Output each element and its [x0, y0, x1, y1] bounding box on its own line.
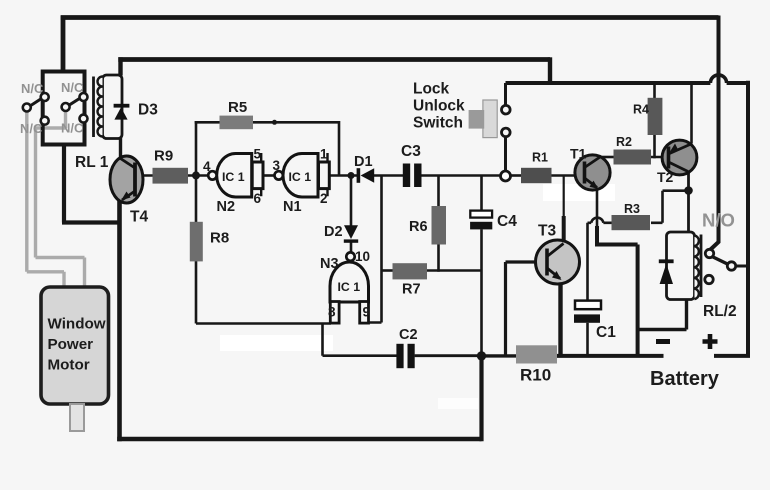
- wire bottom rail riser to ground dot: [479, 356, 483, 441]
- battery plus sign: [703, 334, 718, 349]
- wire R10 right to battery minus terminal: [557, 354, 664, 358]
- svg-text:N/C: N/C: [21, 81, 44, 96]
- svg-text:D3: D3: [138, 102, 158, 119]
- wire D1 to C3: [374, 174, 403, 177]
- contact fixed circle bottom-left: [41, 117, 49, 125]
- wire lock switch top contact riser: [504, 83, 507, 106]
- battery minus sign: [656, 339, 670, 344]
- wire T4 base to R9: [135, 174, 153, 177]
- relay RL2 core bar: [700, 235, 703, 298]
- svg-text:C4: C4: [497, 213, 517, 230]
- wire hop over vertical at x=718: [710, 75, 726, 83]
- wire T1 emitter line down: [596, 188, 599, 228]
- relay RL1 coil body: [103, 75, 123, 139]
- contact fixed circle bottom-right: [80, 115, 88, 123]
- diode RL2 flyback: [659, 259, 674, 263]
- contact throw circle left: [23, 104, 31, 112]
- relay RL2 coil body: [667, 232, 695, 300]
- wire right vertical battery plus riser: [746, 81, 750, 356]
- relay RL1 core bar: [92, 77, 95, 138]
- svg-text:N2: N2: [217, 199, 236, 215]
- resistor R1: [521, 168, 552, 183]
- capacitor C4: [470, 211, 492, 218]
- svg-text:4: 4: [203, 159, 211, 174]
- wire N/O lever to right riser: [734, 265, 748, 268]
- wire drop from second rail to switch rail: [548, 57, 552, 83]
- svg-text:N1: N1: [283, 199, 302, 215]
- wire N1 output bubble to N2 inputs: [263, 174, 275, 177]
- svg-text:2: 2: [320, 191, 328, 206]
- resistor R6: [432, 206, 447, 245]
- wire RL1 coil top riser: [118, 57, 122, 75]
- resistor R9: [153, 168, 189, 184]
- nand gate N3: [330, 262, 369, 302]
- wire bottom return rail: [117, 437, 481, 442]
- wire C1 bottom lead to rail: [586, 323, 589, 356]
- wire T2 emitter riser to switch rail: [690, 83, 693, 144]
- contact throw circle mid: [62, 103, 70, 111]
- wire T2 collector down to RL2 coil: [687, 172, 690, 233]
- resistor R5: [220, 116, 254, 130]
- svg-text:IC 1: IC 1: [222, 170, 245, 184]
- wire R2 to T2 base: [651, 156, 669, 159]
- svg-text:Window: Window: [48, 316, 106, 333]
- resistor R3: [612, 215, 651, 230]
- svg-text:Unlock: Unlock: [413, 98, 465, 115]
- svg-text:T2: T2: [657, 169, 674, 185]
- resistor R8: [190, 222, 203, 262]
- contact lever top-left: [30, 99, 42, 107]
- node ground junction dot: [477, 351, 486, 360]
- svg-text:C3: C3: [401, 143, 421, 160]
- resistor R7: [393, 263, 428, 279]
- wire R3 left lead with hop to C1 top: [588, 223, 614, 301]
- wire motor gray lead B: [36, 109, 85, 288]
- wire RL1 coil bottom to T4 collector: [119, 137, 122, 159]
- contact lever top-right: [69, 98, 81, 105]
- wire RL2 coil bottom to minus rail: [638, 299, 687, 330]
- wire R1 to T1 base: [552, 174, 585, 177]
- transistor T3: [536, 240, 580, 284]
- svg-text:IC 1: IC 1: [289, 170, 312, 184]
- wire D2 branch vertical: [350, 176, 353, 253]
- svg-text:R4: R4: [633, 103, 649, 117]
- wire R4 bottom lead to T2 base node: [653, 135, 656, 159]
- wire C3 to switch node: [421, 174, 500, 177]
- wire N3 pin9 link and riser to main line: [369, 176, 382, 323]
- svg-text:Battery: Battery: [650, 368, 720, 390]
- N/O switch lever: [712, 257, 729, 265]
- wire R8 bottom to N3 pin8: [196, 261, 331, 324]
- wire second supply rail: [118, 57, 550, 62]
- N/O switch throw circle: [727, 262, 735, 270]
- wire R7 right lead to C4 line: [427, 269, 482, 272]
- diode D3: [114, 104, 130, 108]
- svg-text:Switch: Switch: [413, 115, 463, 132]
- node small dot on R5 wire: [272, 120, 277, 125]
- window power motor box: [41, 287, 109, 404]
- svg-text:R9: R9: [154, 148, 173, 165]
- svg-text:R6: R6: [409, 219, 428, 235]
- wire T4 emitter down-left vertical: [117, 200, 122, 441]
- svg-text:T4: T4: [130, 209, 148, 226]
- motor shaft stub: [70, 404, 84, 431]
- svg-text:R1: R1: [532, 151, 548, 165]
- svg-text:3: 3: [273, 158, 281, 173]
- wire pin8 corner drop to C2: [323, 324, 397, 356]
- svg-text:N/C: N/C: [20, 121, 43, 136]
- resistor R4: [648, 98, 663, 135]
- contact pivot circle top-right: [80, 93, 88, 101]
- svg-text:Motor: Motor: [48, 357, 90, 374]
- wire R4 top lead to switch rail: [653, 83, 656, 99]
- wire C2 to ground junction dot: [415, 354, 482, 357]
- svg-text:10: 10: [355, 249, 370, 264]
- svg-text:6: 6: [254, 191, 262, 206]
- wire top supply rail: [61, 15, 719, 20]
- svg-text:D1: D1: [354, 154, 373, 170]
- wire switch node to R1: [510, 174, 521, 177]
- lock unlock switch body: [483, 100, 497, 138]
- relay RL2 coil bumps: [695, 236, 699, 300]
- svg-text:R3: R3: [624, 202, 640, 216]
- node open circle on main line: [501, 171, 511, 181]
- svg-text:Power: Power: [48, 336, 94, 353]
- svg-text:5: 5: [254, 147, 262, 162]
- N/O switch contact common: [705, 249, 713, 257]
- svg-text:Lock: Lock: [413, 81, 450, 98]
- svg-text:D2: D2: [324, 224, 343, 240]
- svg-text:T1: T1: [570, 146, 587, 162]
- wire R5 right lead to feedback drop: [253, 121, 339, 176]
- svg-text:N/C: N/C: [61, 80, 84, 95]
- capacitor C2: [396, 344, 403, 368]
- wire R6 top and bottom leads: [437, 176, 440, 272]
- lock switch contact bottom: [502, 128, 511, 137]
- nand gate N2: [217, 154, 252, 198]
- resistor R10: [516, 345, 557, 363]
- wire R7 left lead: [382, 269, 393, 272]
- diode D2: [344, 225, 358, 239]
- svg-text:R10: R10: [520, 366, 551, 385]
- N/O switch lower fixed circle: [705, 275, 713, 283]
- lock switch contact top: [502, 105, 511, 114]
- svg-text:R5: R5: [228, 99, 247, 116]
- node junction dot R5 branch on gate wire: [192, 171, 200, 179]
- wire battery plus terminal: [714, 354, 750, 358]
- svg-text:N/C: N/C: [61, 121, 84, 136]
- wire ground rail dot to R10: [482, 354, 517, 357]
- transistor T4: [110, 156, 143, 203]
- wire top-left drop to contact box: [61, 16, 66, 73]
- svg-text:N3: N3: [320, 256, 339, 272]
- node junction dot T2 collector R3 coil: [684, 186, 693, 195]
- wire hop arc over T1 emitter line: [591, 218, 603, 223]
- svg-text:8: 8: [328, 305, 336, 320]
- transistor T2: [662, 140, 697, 175]
- svg-text:9: 9: [363, 305, 371, 320]
- wire switch rail with hop: [506, 81, 749, 85]
- relay contact box: [43, 72, 85, 145]
- wire C4 vertical line: [480, 176, 483, 357]
- svg-text:R7: R7: [402, 282, 421, 298]
- svg-text:R2: R2: [616, 135, 632, 149]
- capacitor C3: [403, 164, 410, 188]
- wire T1 collector to R2: [600, 156, 614, 159]
- wire T3 emitter down to R10 right: [558, 279, 562, 356]
- wire R9 to N2 output bubble: [188, 174, 208, 177]
- wire main gate output line N1 to D1: [329, 174, 358, 177]
- diode D1: [357, 168, 361, 183]
- svg-text:C2: C2: [399, 327, 418, 343]
- svg-text:RL/2: RL/2: [703, 303, 737, 320]
- wire lock switch bottom contact to node: [504, 136, 507, 171]
- resistor R2: [614, 150, 652, 165]
- wire R3 right lead up to coil node: [651, 191, 689, 223]
- node junction dot D2 branch: [348, 172, 355, 179]
- svg-text:1: 1: [320, 147, 328, 162]
- wire T3 collector riser to R1 node: [563, 176, 565, 219]
- capacitor C1: [575, 301, 601, 310]
- contact pivot circle top-left: [41, 93, 49, 101]
- svg-text:N/O: N/O: [702, 210, 735, 231]
- svg-text:RL 1: RL 1: [75, 154, 109, 171]
- svg-text:R8: R8: [210, 230, 229, 247]
- wire T3 base L to ground rail: [506, 262, 548, 356]
- svg-text:T3: T3: [538, 223, 556, 240]
- relay RL1 coil bumps: [98, 77, 103, 137]
- wire contact box bottom L to T4 line: [62, 144, 121, 223]
- wire N/O switch feed vertical: [711, 16, 719, 250]
- svg-text:C1: C1: [596, 324, 616, 341]
- wire motor gray lead A: [27, 110, 64, 288]
- wire R5-R8 vertical branch: [195, 121, 198, 222]
- transistor T1: [575, 155, 610, 190]
- svg-text:IC 1: IC 1: [338, 280, 361, 294]
- wire R5 left lead: [195, 121, 220, 124]
- nand gate N1: [283, 154, 318, 198]
- wire T1 emitter thick L to battery minus rail: [595, 226, 638, 357]
